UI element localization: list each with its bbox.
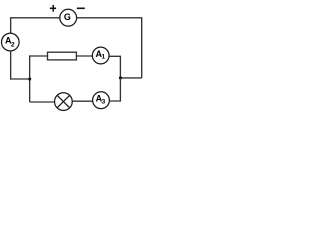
polarity label + [50,5,56,12]
ammeter A3 [93,92,110,109]
svg-text:1: 1 [101,54,105,61]
svg-text:2: 2 [11,41,15,48]
wire top-left: from ammeter A2 up and right to galvanometer G [11,18,60,33]
node left junction [28,77,31,80]
ammeter A1 [92,47,109,64]
wire: lamp to ammeter A3 [72,100,92,102]
svg-text:G: G [64,12,71,22]
wire: resistor to ammeter A1 [76,55,92,57]
lamp L [55,93,73,111]
resistor R [48,52,77,60]
galvanometer G [60,9,77,26]
wire left: from A2 bottom down then right to left junction [11,51,30,79]
svg-text:3: 3 [102,99,106,106]
wire top-right: from G right to top-right corner down to right junction [77,18,142,78]
wire middle-branch left riser: vertical through left junction down to lamp row, corner to resistor [30,56,48,102]
wire: right junction to right outer wire [120,77,141,79]
polarity label - [77,8,85,10]
node right junction [119,76,122,79]
ammeter A2 [2,33,20,51]
wire: left riser corner to lamp [30,101,55,103]
wire: A1 right then down to right junction [109,56,120,78]
wire: A3 right then up to right junction [109,78,120,101]
